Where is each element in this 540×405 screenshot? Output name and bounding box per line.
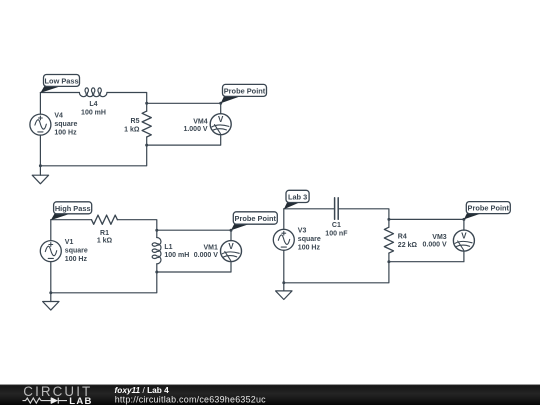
svg-text:square: square — [298, 236, 321, 243]
svg-text:V: V — [461, 232, 467, 241]
svg-text:LAB: LAB — [69, 396, 92, 405]
svg-text:Probe Point: Probe Point — [224, 87, 266, 96]
svg-text:Probe Point: Probe Point — [468, 204, 510, 213]
svg-text:VM4: VM4 — [193, 119, 208, 126]
svg-text:Low Pass: Low Pass — [45, 77, 79, 86]
svg-text:High Pass: High Pass — [55, 204, 91, 213]
svg-text:L1: L1 — [164, 244, 172, 251]
svg-text:1 kΩ: 1 kΩ — [97, 238, 113, 245]
svg-text:1.000 V: 1.000 V — [183, 126, 207, 133]
svg-text:V: V — [218, 115, 224, 124]
svg-text:V4: V4 — [54, 112, 63, 119]
svg-text:C1: C1 — [332, 222, 341, 229]
svg-text:100 Hz: 100 Hz — [298, 245, 321, 252]
svg-text:square: square — [65, 247, 88, 254]
svg-text:0.000 V: 0.000 V — [423, 242, 447, 249]
svg-text:Lab 3: Lab 3 — [288, 193, 307, 202]
svg-text:100 nF: 100 nF — [325, 230, 348, 237]
svg-text:VM3: VM3 — [432, 234, 447, 241]
svg-text:L4: L4 — [89, 101, 97, 108]
svg-text:V3: V3 — [298, 228, 307, 235]
svg-text:22 kΩ: 22 kΩ — [398, 242, 418, 249]
svg-text:100 Hz: 100 Hz — [65, 256, 88, 263]
svg-text:square: square — [54, 121, 77, 128]
svg-text:100 Hz: 100 Hz — [54, 129, 77, 136]
svg-text:R4: R4 — [398, 233, 407, 240]
svg-text:http://circuitlab.com/ce639he6: http://circuitlab.com/ce639he6352uc — [115, 394, 266, 404]
svg-text:V: V — [228, 242, 234, 251]
svg-text:V1: V1 — [65, 239, 74, 246]
svg-text:100 mH: 100 mH — [81, 109, 106, 116]
svg-text:Probe Point: Probe Point — [235, 214, 277, 223]
svg-text:R5: R5 — [131, 118, 140, 125]
svg-text:R1: R1 — [100, 230, 109, 237]
svg-text:100 mH: 100 mH — [164, 252, 189, 259]
svg-text:VM1: VM1 — [203, 245, 218, 252]
svg-text:0.000 V: 0.000 V — [194, 252, 218, 259]
svg-text:1 kΩ: 1 kΩ — [124, 126, 140, 133]
